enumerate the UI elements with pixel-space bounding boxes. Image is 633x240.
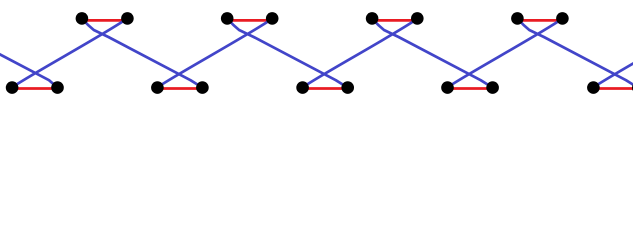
edge red top pair T3 [372,19,417,22]
wire blue D3: top-left dot down to bottom-right dot [372,18,493,87]
node B4R [632,81,633,94]
edge red bottom pair B4 [593,87,633,90]
node B3L [441,81,454,94]
edge red bottom pair B3 [448,87,493,90]
edge red bottom pair B2 [303,87,348,90]
wire blue U2: bottom-left dot up to top-right dot [303,18,418,87]
node B4L [587,81,600,94]
wire blue U4: bottom-left dot up to top-right dot [593,18,633,87]
wire blue D0: top-left dot down to bottom-right dot [0,18,58,87]
wire blue D1: top-left dot down to bottom-right dot [82,18,202,87]
edge red bottom pair B1 [157,87,202,90]
node T2L [221,12,234,25]
node T2R [266,12,279,25]
node B1R [196,81,209,94]
edge red bottom pair B0 [12,87,57,90]
node T4L [511,12,524,25]
wire blue U1: bottom-left dot up to top-right dot [157,18,272,87]
node T3L [366,12,379,25]
node B2R [341,81,354,94]
node T1R [121,12,134,25]
graph diagram: infinite antiprism-like strip, red pair edges, blue zigzag edges, black vertex dots [0,0,633,113]
wire blue D4: top-left dot down to bottom-right dot [517,18,633,87]
node T4R [556,12,569,25]
node B2L [296,81,309,94]
node B3R [486,81,499,94]
node T1L [76,12,89,25]
edge red top pair T2 [227,19,272,22]
node B0R [51,81,64,94]
wire blue U3: bottom-left dot up to top-right dot [448,18,563,87]
wire blue D2: top-left dot down to bottom-right dot [227,18,348,87]
edge red top pair T4 [517,19,562,22]
wire blue U0: bottom-left dot up to top-right dot [12,18,127,87]
node B1L [151,81,164,94]
edge red top pair T1 [82,19,128,22]
node T3R [411,12,424,25]
node B0L [6,81,19,94]
